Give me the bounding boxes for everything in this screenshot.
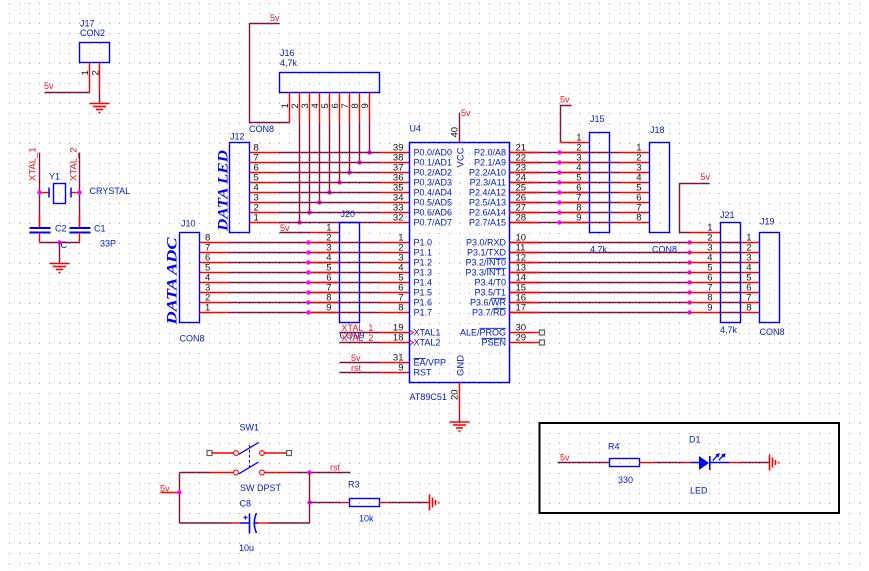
svg-text:5v: 5v	[701, 172, 711, 182]
junction caps bottom	[57, 240, 61, 244]
wire P3.4 bus row	[510, 282, 690, 284]
J12 pin 6	[250, 172, 280, 174]
resistor R4	[610, 459, 656, 467]
svg-text:8: 8	[636, 213, 641, 224]
U4 pin stub P3.1	[510, 252, 540, 254]
wire P2.0 bus row	[510, 152, 560, 154]
resistor network J21 body	[721, 223, 741, 323]
wire P3.7 bus row	[510, 312, 690, 314]
J12 pin 3	[250, 202, 280, 204]
U4 pin stub P1.0	[380, 242, 410, 244]
U4 pin stub P2.7	[510, 222, 540, 224]
svg-text:P2.5/A13: P2.5/A13	[469, 198, 506, 208]
wire P3.3 bus row	[510, 272, 690, 274]
J16 pin 2	[299, 93, 301, 123]
wire P1.5 bus row	[230, 292, 380, 294]
junction J16 pin 5	[327, 190, 331, 194]
svg-text:rst: rst	[351, 363, 361, 373]
svg-text:CRYSTAL: CRYSTAL	[90, 186, 131, 196]
svg-text:9: 9	[707, 303, 712, 314]
wire P1.6 bus row	[230, 302, 380, 304]
J18 pin 5 stub	[620, 192, 650, 194]
junction J16 pin 3	[307, 210, 311, 214]
wire P1.0 bus row	[230, 242, 380, 244]
U4 pin stub P0.2	[380, 172, 410, 174]
J16 pin 5	[329, 93, 331, 123]
J10 pin 6	[200, 262, 230, 264]
wire P1.1 bus row	[230, 252, 380, 254]
wire SW1 left to rail	[180, 472, 210, 474]
U4 pin stub P2.6	[510, 212, 540, 214]
junction J16 pin 7	[347, 170, 351, 174]
svg-text:P0.6/AD6: P0.6/AD6	[414, 208, 453, 218]
svg-text:P0.0/AD0: P0.0/AD0	[414, 148, 453, 158]
svg-text:PSEN: PSEN	[481, 338, 506, 348]
J20 pin 5 stub	[310, 272, 340, 274]
svg-text:P0.4/AD4: P0.4/AD4	[414, 188, 453, 198]
svg-text:330: 330	[618, 475, 633, 485]
J15 pin 4 stub	[560, 172, 590, 174]
J10 pin 8	[200, 242, 230, 244]
U4 pin stub P1.5	[380, 292, 410, 294]
svg-text:1: 1	[205, 303, 210, 314]
resistor network J15 body	[590, 133, 610, 233]
wire 5v to J21 pin 1	[680, 184, 710, 233]
wire P3.3 through J21 to J19	[721, 272, 741, 274]
J21 pin 4 stub	[690, 262, 721, 264]
svg-text:XTAL_2: XTAL_2	[69, 147, 80, 181]
wire P0.2 bus row	[280, 172, 380, 174]
wire P0.6 bus row	[280, 212, 380, 214]
svg-text:CON2: CON2	[80, 28, 105, 38]
wire P2.1 through J15 to J18	[560, 162, 620, 164]
svg-text:4,7k: 4,7k	[280, 58, 298, 68]
junction J20 pin 2	[306, 240, 310, 244]
svg-text:C: C	[61, 240, 68, 250]
svg-text:J20: J20	[341, 209, 356, 219]
J21 pin 7 stub	[690, 292, 721, 294]
junction J15 pin 7	[557, 200, 561, 204]
J15 pin 8 stub	[560, 212, 590, 214]
ground at crystal	[50, 263, 70, 265]
wire XTAL1 net vertical left	[39, 153, 41, 229]
U4 pin stub P1.4	[380, 282, 410, 284]
J15 pin 1 stub	[561, 142, 590, 144]
junction J20 pin 6	[306, 280, 310, 284]
ground at J17	[90, 103, 110, 105]
wire J17 pin 2 to ground	[99, 93, 101, 104]
J12 pin 7	[250, 162, 280, 164]
J16 pin 3	[309, 93, 311, 123]
svg-text:D1: D1	[689, 435, 701, 445]
svg-text:XTAL_1: XTAL_1	[28, 147, 39, 181]
wire J16 pin 9 to P0 bus	[369, 123, 371, 153]
junction J15 pin 6	[557, 190, 561, 194]
J16 pin 8	[359, 93, 361, 123]
svg-text:9: 9	[360, 103, 371, 108]
U4 pin stub P1.3	[380, 272, 410, 274]
U4 pin stub P2.4	[510, 192, 540, 194]
J21 pin 6 stub	[690, 282, 721, 284]
junction J21 pin 3	[687, 250, 691, 254]
svg-text:XTAL_2: XTAL_2	[342, 333, 374, 343]
U4 pin stub P3.4	[510, 282, 540, 284]
wire P2.6 bus row	[510, 212, 560, 214]
connector J18 body	[650, 143, 670, 233]
svg-text:EA/VPP: EA/VPP	[414, 358, 447, 368]
J17 pin 1	[89, 63, 91, 93]
U4 pin stub P1.6	[380, 302, 410, 304]
junction crystal right	[77, 190, 81, 194]
svg-text:P1.1: P1.1	[414, 248, 433, 258]
svg-text:18: 18	[393, 333, 404, 344]
svg-text:P1.2: P1.2	[414, 258, 433, 268]
svg-text:5v: 5v	[44, 81, 54, 91]
junction J16 pin 6	[337, 180, 341, 184]
svg-text:C8: C8	[240, 499, 252, 509]
junction J16 pin 8	[357, 160, 361, 164]
J10 pin 5	[200, 272, 230, 274]
wire rst down to R3 row	[309, 473, 311, 503]
wire 5v to U4 EA	[340, 362, 380, 364]
junction J16 pin 9	[367, 150, 371, 154]
wire 5v to J15 pin 1	[561, 106, 572, 143]
border box	[540, 423, 840, 513]
svg-text:J15: J15	[590, 114, 605, 124]
wire P3.6 through J21 to J19	[721, 302, 741, 304]
svg-text:1: 1	[80, 70, 91, 75]
svg-text:P3.5/T1: P3.5/T1	[474, 288, 506, 298]
svg-text:J16: J16	[280, 48, 295, 58]
svg-text:XTAL2: XTAL2	[414, 338, 441, 348]
svg-text:J21: J21	[720, 210, 735, 220]
U4 pin stub XTAL2 pin 18	[380, 342, 410, 344]
svg-text:5v: 5v	[560, 453, 570, 463]
J16 pin 9	[369, 93, 371, 123]
svg-text:P2.7/A15: P2.7/A15	[469, 218, 506, 228]
wire P1.2 bus row	[230, 262, 380, 264]
wire P3.6 bus row	[510, 302, 690, 304]
svg-text:33P: 33P	[100, 239, 116, 249]
J15 pin 6 stub	[560, 192, 590, 194]
svg-text:28: 28	[516, 213, 527, 224]
J21 pin 3 stub	[690, 252, 721, 254]
svg-text:P0.2/AD2: P0.2/AD2	[414, 168, 453, 178]
svg-text:5v: 5v	[280, 223, 290, 233]
U4 pin stub P3.7	[510, 312, 540, 314]
J21 pin 1 stub	[690, 232, 721, 234]
junction J15 pin 9	[557, 220, 561, 224]
left rail vertical	[179, 473, 181, 524]
wire P2.5 bus row	[510, 202, 560, 204]
connector J12 body	[230, 143, 250, 233]
wire P0.7 bus row	[280, 222, 380, 224]
U4 pin stub P2.2	[510, 172, 540, 174]
ground in box	[769, 455, 771, 471]
wire P2.1 bus row	[510, 162, 560, 164]
svg-text:32: 32	[393, 213, 404, 224]
junction R3 row	[307, 500, 311, 504]
J19 pin 3 stub	[741, 262, 760, 264]
wire P2.3 bus row	[510, 182, 560, 184]
svg-text:P2.2/A10: P2.2/A10	[469, 168, 506, 178]
ground at R3	[429, 495, 431, 511]
svg-text:P1.6: P1.6	[414, 298, 433, 308]
junction J20 pin 4	[306, 260, 310, 264]
U4 pin stub P2.1	[510, 162, 540, 164]
J10 pin 4	[200, 282, 230, 284]
svg-text:9: 9	[398, 363, 403, 374]
J19 pin 7 stub	[741, 302, 760, 304]
wire 5v to J20 pin 1	[280, 232, 310, 234]
J10 pin 7	[200, 252, 230, 254]
svg-text:P1.0: P1.0	[414, 238, 433, 248]
wire P3.2 bus row	[510, 262, 690, 264]
wire P0.5 bus row	[280, 202, 380, 204]
wire J16 pin 7 to P0 bus	[349, 123, 351, 173]
bottom rail left	[180, 522, 231, 524]
junction J21 pin 4	[687, 260, 691, 264]
U4 pin stub PSEN pin 29	[510, 342, 540, 344]
svg-text:P0.7/AD7: P0.7/AD7	[414, 218, 453, 228]
svg-text:R4: R4	[608, 442, 620, 452]
connector J19 body	[760, 233, 780, 323]
J12 pin 8	[250, 152, 280, 154]
wire P3.5 through J21 to J19	[721, 292, 741, 294]
U4 pin stub P1.1	[380, 252, 410, 254]
U4 pin stub P0.4	[380, 192, 410, 194]
svg-text:Y1: Y1	[49, 172, 60, 182]
ground at U4 GND	[450, 421, 470, 423]
junction rst	[307, 470, 311, 474]
svg-text:P2.6/A14: P2.6/A14	[469, 208, 506, 218]
svg-text:8: 8	[398, 303, 403, 314]
svg-text:DATA LED: DATA LED	[216, 150, 232, 232]
junction J15 pin 8	[557, 210, 561, 214]
wire 5v to R4	[558, 462, 610, 464]
wire SW1 right to rst junction	[290, 472, 351, 474]
J10 pin 1	[200, 312, 230, 314]
svg-text:CON8: CON8	[180, 334, 205, 344]
svg-text:P3.2/INT0: P3.2/INT0	[465, 258, 506, 268]
svg-text:P0.3/AD3: P0.3/AD3	[414, 178, 453, 188]
connector J10 body	[180, 233, 200, 323]
J15 pin 2 stub	[560, 152, 590, 154]
wire P3.7 through J21 to J19	[721, 312, 741, 314]
svg-text:SW DPST: SW DPST	[240, 483, 282, 493]
junction 5v rail	[177, 490, 181, 494]
wire P3.0 bus row	[510, 242, 690, 244]
junction J21 pin 5	[687, 270, 691, 274]
U4 pin stub P0.1	[380, 162, 410, 164]
wire R3 to ground	[390, 502, 430, 504]
svg-text:9: 9	[326, 303, 331, 314]
U4 pin stub P3.2	[510, 262, 540, 264]
resistor R3	[340, 499, 390, 507]
svg-text:J19: J19	[760, 217, 775, 227]
svg-text:RST: RST	[414, 368, 433, 378]
junction J15 pin 2	[557, 150, 561, 154]
svg-text:LED: LED	[690, 486, 708, 496]
U4 pin stub P0.7	[380, 222, 410, 224]
wire XTAL2 net vertical right	[79, 153, 81, 229]
U4 pin stub P2.3	[510, 182, 540, 184]
svg-text:P2.1/A9: P2.1/A9	[474, 158, 506, 168]
connector J20 body	[340, 223, 360, 323]
wire P3.0 through J21 to J19	[721, 242, 741, 244]
svg-text:J18: J18	[650, 125, 665, 135]
wire P0.4 bus row	[280, 192, 380, 194]
U4 pin stub P1.2	[380, 262, 410, 264]
wire P2.2 bus row	[510, 172, 560, 174]
wire P2.7 through J15 to J18	[560, 222, 620, 224]
svg-text:29: 29	[516, 333, 527, 344]
svg-text:CON8: CON8	[760, 327, 785, 337]
wire J16 pin 8 to P0 bus	[359, 123, 361, 163]
junction J21 pin 2	[687, 240, 691, 244]
J19 pin 5 stub	[741, 282, 760, 284]
junction J16 pin 2	[297, 220, 301, 224]
svg-text:5v: 5v	[461, 108, 471, 118]
J18 pin 4 stub	[620, 182, 650, 184]
svg-text:P3.0/RXD: P3.0/RXD	[466, 238, 507, 248]
junction J20 pin 8	[306, 300, 310, 304]
wire to crystal ground	[59, 243, 61, 264]
J20 pin 7 stub	[310, 292, 340, 294]
unconnected terminal at PSEN	[540, 340, 545, 345]
J18 pin 6 stub	[620, 202, 650, 204]
svg-text:5v: 5v	[270, 13, 280, 23]
wire P2.3 through J15 to J18	[560, 182, 620, 184]
svg-text:J12: J12	[230, 132, 245, 142]
unconnected terminal at ALE	[540, 330, 545, 335]
svg-text:10k: 10k	[359, 514, 374, 524]
svg-text:P2.0/A8: P2.0/A8	[474, 148, 506, 158]
wire 5v to rail	[161, 492, 180, 494]
svg-text:17: 17	[516, 303, 527, 314]
IC U4 AT89C51 body	[410, 143, 510, 383]
junction J15 pin 3	[557, 160, 561, 164]
U4 pin stub P3.6	[510, 302, 540, 304]
J18 pin 2 stub	[620, 162, 650, 164]
J15 pin 3 stub	[560, 162, 590, 164]
J12 pin 1	[250, 222, 280, 224]
svg-text:VCC: VCC	[456, 147, 467, 167]
wire crystal caps bottom rail	[40, 242, 80, 244]
svg-text:9: 9	[576, 213, 581, 224]
wire P3.1 bus row	[510, 252, 690, 254]
svg-text:1: 1	[254, 213, 259, 224]
wire C8 up to R3 row	[309, 503, 311, 524]
crystal Y1	[40, 184, 80, 204]
U4 pin stub P3.5	[510, 292, 540, 294]
J20 pin 9 stub	[310, 312, 340, 314]
U4 VCC pin 40 wire	[459, 113, 461, 143]
U4 pin stub P3.3	[510, 272, 540, 274]
wire P3.1 through J21 to J19	[721, 252, 741, 254]
wire P0.3 bus row	[280, 182, 380, 184]
svg-text:P1.3: P1.3	[414, 268, 433, 278]
junction J20 pin 9	[306, 310, 310, 314]
svg-text:P1.7: P1.7	[414, 308, 433, 318]
wire P2.6 through J15 to J18	[560, 212, 620, 214]
J19 pin 2 stub	[741, 252, 760, 254]
U4 GND pin 20 wire	[459, 383, 461, 413]
U4 pin stub P3.0	[510, 242, 540, 244]
wire P1.3 bus row	[230, 272, 380, 274]
wire J16 pin 5 to P0 bus	[329, 123, 331, 193]
J10 pin 2	[200, 302, 230, 304]
J15 pin 5 stub	[560, 182, 590, 184]
svg-text:DATA ADC: DATA ADC	[165, 236, 181, 325]
U4 pin stub P0.6	[380, 212, 410, 214]
J16 pin 6	[339, 93, 341, 123]
wire P3.4 through J21 to J19	[721, 282, 741, 284]
svg-text:5v: 5v	[351, 353, 361, 363]
U4 pin stub P0.0	[380, 152, 410, 154]
J18 pin 7 stub	[620, 212, 650, 214]
J18 pin 8 stub	[620, 222, 650, 224]
wire 5v to J17 pin 1	[45, 92, 90, 94]
wire R4 to D1	[656, 462, 685, 464]
J20 pin 6 stub	[310, 282, 340, 284]
svg-text:2: 2	[91, 70, 102, 75]
J20 pin 4 stub	[310, 262, 340, 264]
wire J16 pin 4 to P0 bus	[319, 123, 321, 203]
J19 pin 8 stub	[741, 312, 760, 314]
J20 pin 1 stub	[310, 232, 340, 234]
J21 pin 5 stub	[690, 272, 721, 274]
wire XTAL2 to U4	[340, 342, 380, 344]
wire P0.1 bus row	[280, 162, 380, 164]
junction J21 pin 7	[687, 290, 691, 294]
J19 pin 4 stub	[741, 272, 760, 274]
svg-text:U4: U4	[410, 124, 422, 134]
U4 pin stub P2.5	[510, 202, 540, 204]
svg-text:40: 40	[450, 127, 461, 138]
svg-text:ALE/PROG: ALE/PROG	[460, 328, 506, 338]
wire P2.5 through J15 to J18	[560, 202, 620, 204]
U4 pin stub P2.0	[510, 152, 540, 154]
J20 pin 2 stub	[310, 242, 340, 244]
wire P3.2 through J21 to J19	[721, 262, 741, 264]
junction J21 pin 8	[687, 300, 691, 304]
junction J21 pin 6	[687, 280, 691, 284]
wire P2.0 through J15 to J18	[560, 152, 620, 154]
svg-text:SW1: SW1	[240, 423, 260, 433]
J18 pin 1 stub	[620, 152, 650, 154]
junction J20 pin 3	[306, 250, 310, 254]
wire J16 pin 2 to P0 bus	[299, 123, 301, 223]
wire J16 pin 6 to P0 bus	[339, 123, 341, 183]
U4 pin stub XTAL1 pin 19	[380, 332, 410, 334]
svg-text:P0.1/AD1: P0.1/AD1	[414, 158, 453, 168]
svg-text:P3.1/TXD: P3.1/TXD	[467, 248, 507, 258]
svg-text:P3.6/WR: P3.6/WR	[470, 298, 507, 308]
wire D1 to ground	[741, 462, 770, 464]
junction crystal left	[37, 190, 41, 194]
J16 pin 1	[289, 93, 291, 123]
wire XTAL1 to U4	[340, 332, 380, 334]
J15 pin 7 stub	[560, 202, 590, 204]
J21 pin 9 stub	[690, 312, 721, 314]
junction J15 pin 5	[557, 180, 561, 184]
svg-text:P1.5: P1.5	[414, 288, 433, 298]
svg-text:P3.7/RD: P3.7/RD	[472, 308, 507, 318]
wire 5v to J16 pin 1	[250, 24, 290, 123]
J15 pin 9 stub	[560, 222, 590, 224]
J10 pin 3	[200, 292, 230, 294]
